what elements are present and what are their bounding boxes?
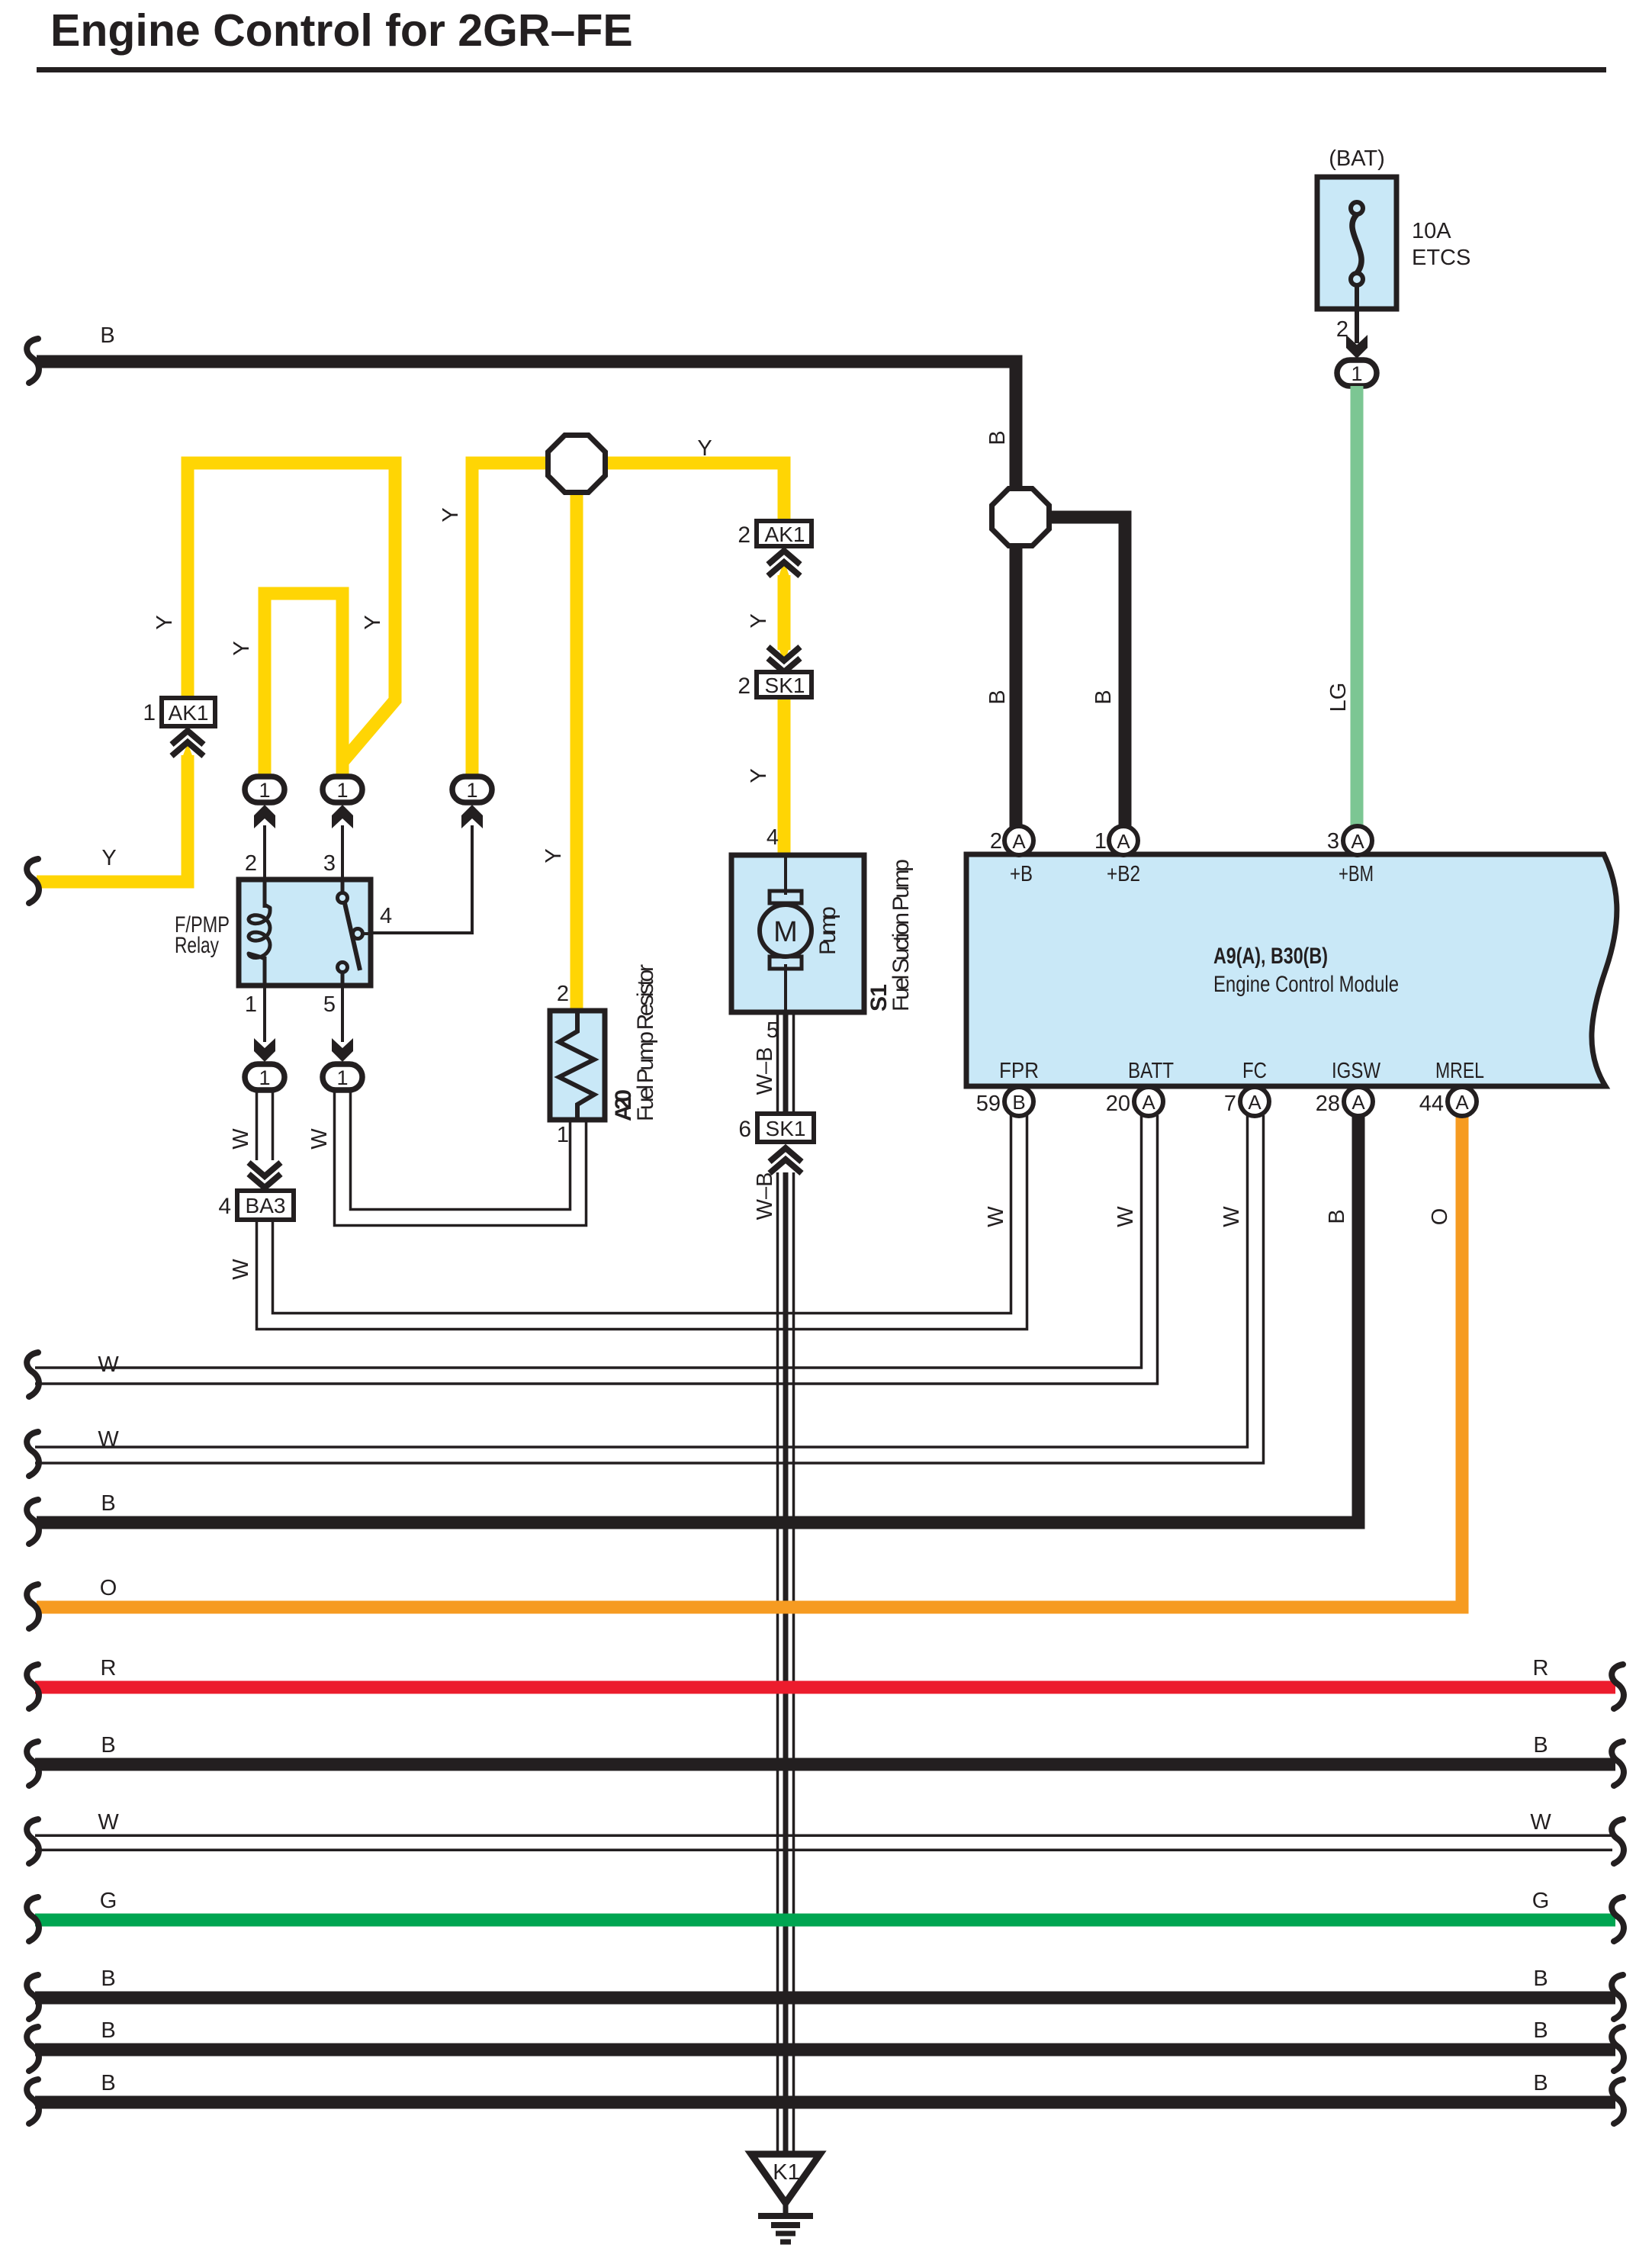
wire W relay pin1 oval to connector BA3: [256, 1090, 259, 1160]
svg-text:B: B: [101, 1967, 115, 1991]
svg-text:A: A: [1142, 1091, 1155, 1114]
connector 4 BA3: [237, 1191, 294, 1220]
svg-text:4: 4: [767, 825, 779, 850]
svg-text:AK1: AK1: [169, 701, 209, 725]
RELAY: [175, 777, 492, 1090]
wire W connector BA3 down right up to ECM pin 59 FPR: [257, 1115, 1027, 1330]
wire Y from relay pin4 oval up to splice and connector AK1: [472, 463, 784, 778]
pin circle 28 A: [1344, 1087, 1373, 1116]
svg-text:44: 44: [1419, 1092, 1444, 1116]
svg-text:2: 2: [738, 523, 750, 548]
fuse ETCS 10A box: [1317, 177, 1396, 309]
wire W bus from ECM pin 7 FC to left edge: [35, 1115, 1248, 1447]
svg-text:+B2: +B2: [1107, 862, 1140, 886]
wire Y from left edge to connector AK1: [37, 755, 188, 882]
svg-text:A: A: [1455, 1091, 1469, 1114]
svg-text:Engine Control for 2GR–FE: Engine Control for 2GR–FE: [50, 5, 633, 56]
svg-text:1: 1: [245, 992, 257, 1017]
svg-text:1: 1: [1351, 362, 1362, 385]
svg-text:A: A: [1351, 830, 1364, 853]
RESISTOR: [550, 964, 658, 1147]
wire LG from fuse to ECM pin 3 +BM: [1351, 386, 1364, 827]
svg-text:W: W: [98, 1352, 119, 1377]
wire continuation brace left R: [27, 1664, 39, 1709]
svg-text:A9(A), B30(B): A9(A), B30(B): [1213, 944, 1328, 969]
svg-text:R: R: [1533, 1656, 1549, 1680]
GROUND: [751, 2154, 820, 2242]
svg-text:SK1: SK1: [765, 674, 805, 697]
svg-text:4: 4: [218, 1194, 231, 1219]
svg-text:BATT: BATT: [1128, 1059, 1174, 1083]
wire continuation brace left B2313: [27, 1741, 39, 1786]
wire B bus full width 2687: [35, 2044, 1615, 2057]
wire B bus from ECM pin 28 IGSW to left edge: [37, 1115, 1358, 1523]
wire B branch from octagon to ECM pin 1 +B2: [1043, 517, 1125, 827]
svg-text:O: O: [100, 1576, 117, 1600]
svg-text:Y: Y: [747, 613, 771, 628]
svg-text:3: 3: [1327, 829, 1339, 854]
svg-text:2: 2: [557, 982, 569, 1006]
svg-text:+BM: +BM: [1339, 862, 1374, 886]
wire lead relay pin 5: [341, 986, 344, 1042]
wire W-B pump pin5 to connector SK1: [776, 1012, 779, 1115]
svg-text:3: 3: [323, 851, 336, 876]
arrow into connector: [1346, 335, 1368, 359]
relay switch: [341, 880, 345, 893]
wire continuation brace left W2415: [27, 1819, 39, 1864]
wire continuation brace right B2619: [1612, 1975, 1624, 2019]
svg-text:M: M: [773, 916, 798, 948]
svg-text:B: B: [1533, 1733, 1548, 1757]
svg-text:W: W: [307, 1128, 332, 1150]
resistor element zigzag: [559, 1011, 594, 1120]
title underline: [37, 67, 1606, 72]
svg-text:7: 7: [1224, 1092, 1236, 1116]
svg-text:Y: Y: [439, 507, 463, 522]
fuel suction pump S1 box: [731, 855, 864, 1012]
wire Y splice to fuel pump resistor pin 2: [570, 488, 583, 1011]
wire W bus full width 2415: [35, 1835, 1612, 1838]
wire B bus full width 2313: [35, 1758, 1615, 1771]
ground symbol bars: [758, 2213, 813, 2219]
arrow up into oval pin3: [332, 805, 353, 828]
fuse element symbol: [1352, 214, 1361, 273]
svg-text:ETCS: ETCS: [1412, 246, 1470, 270]
wire W relay pin5 oval down right up to resistor pin 1: [335, 1090, 587, 1226]
wire B bus full width 2756: [35, 2096, 1615, 2109]
connector chevron up below 2 AK1: [768, 551, 800, 576]
svg-text:6: 6: [738, 1117, 751, 1142]
wire Y peak tip into chevron below 2 AK1: [778, 561, 791, 580]
relay coil: [263, 880, 267, 908]
svg-text:B: B: [101, 2071, 115, 2095]
svg-text:Y: Y: [361, 615, 385, 629]
svg-text:Fuel Pump Resistor: Fuel Pump Resistor: [633, 964, 658, 1121]
wire W-B from connector SK1 down to ground K1: [776, 1172, 779, 2154]
title: Engine Control for 2GR-FE: [37, 5, 1606, 72]
svg-text:B: B: [985, 690, 1010, 704]
svg-text:B: B: [985, 430, 1010, 445]
wire continuation brace left Y: [27, 859, 39, 903]
svg-text:4: 4: [380, 904, 392, 928]
wire R bus full width: [35, 1681, 1615, 1694]
arrow down into oval pin5: [332, 1038, 353, 1062]
arrow up into oval pin4: [461, 805, 483, 828]
arrow down into oval pin1: [254, 1038, 275, 1062]
connector chevron up below 6 SK1: [770, 1148, 802, 1173]
connector 2 SK1: [757, 672, 812, 697]
BUSES: [27, 1115, 1624, 2124]
svg-text:W: W: [98, 1427, 119, 1452]
ground point K1 triangle: [751, 2154, 820, 2203]
wire Y connector AK1 to SK1: [778, 575, 791, 650]
svg-text:W: W: [1114, 1206, 1138, 1227]
svg-text:2: 2: [990, 829, 1002, 854]
arrow up into oval pin2: [254, 805, 275, 828]
wire continuation brace left B474: [27, 339, 39, 383]
wire continuation brace right W2415: [1612, 1819, 1624, 1864]
ECM: [966, 826, 1617, 1227]
wire lead relay pin 4: [371, 825, 472, 933]
wire Y from AK1 up over to relay pin3 branch: [188, 463, 395, 778]
svg-text:R: R: [101, 1656, 117, 1680]
pin circle 59 B: [1004, 1087, 1033, 1116]
svg-text:1: 1: [336, 779, 348, 802]
svg-text:AK1: AK1: [765, 523, 805, 546]
motor M circle: [760, 905, 812, 957]
svg-text:B: B: [1325, 1209, 1349, 1224]
svg-text:Y: Y: [542, 848, 566, 863]
wire continuation brace right B2313: [1612, 1741, 1624, 1786]
wire B from left edge to ECM pin 2 +B: [37, 362, 1016, 493]
svg-text:59: 59: [976, 1092, 1001, 1116]
wire continuation brace left W: [27, 1352, 39, 1397]
svg-text:B: B: [101, 1491, 115, 1516]
splice octagon B: [992, 489, 1049, 546]
wire G bus full width 2517: [35, 1914, 1615, 1927]
svg-text:A: A: [1117, 830, 1130, 853]
connector oval 1: [1337, 360, 1377, 386]
connector oval 1 relay pin1 bottom: [245, 1064, 284, 1090]
wire continuation brace right B2687: [1612, 2027, 1624, 2071]
connector 6 SK1: [757, 1114, 814, 1142]
svg-text:1: 1: [143, 700, 156, 725]
svg-text:Y: Y: [230, 641, 254, 655]
svg-text:1: 1: [1094, 829, 1107, 854]
wire continuation brace left B1996: [27, 1500, 39, 1544]
wire continuation brace right R: [1612, 1664, 1624, 1709]
svg-text:A: A: [1012, 830, 1026, 853]
wire continuation brace left B2687: [27, 2027, 39, 2071]
connector oval 1 relay pin3 top: [323, 777, 362, 802]
svg-text:B: B: [101, 1733, 115, 1757]
wire continuation brace left W2: [27, 1432, 39, 1476]
pin circle 7 A: [1240, 1087, 1269, 1116]
svg-text:B: B: [1091, 690, 1116, 704]
svg-text:BA3: BA3: [246, 1194, 286, 1217]
pin circle 2 A: [1004, 826, 1033, 855]
svg-text:1: 1: [259, 779, 270, 802]
wire Y peak tip into chevron below 1 AK1: [182, 743, 194, 761]
svg-text:B: B: [1533, 2018, 1548, 2043]
svg-text:Y: Y: [101, 846, 116, 870]
svg-text:1: 1: [557, 1123, 569, 1147]
motor lead bottom: [784, 964, 787, 1012]
svg-text:W: W: [98, 1810, 119, 1835]
wire B octagon splice to ECM pin 2: [1010, 542, 1023, 827]
motor lead top: [784, 855, 787, 895]
svg-text:O: O: [1428, 1208, 1452, 1226]
svg-text:1: 1: [466, 779, 477, 802]
pin circle 1 A: [1109, 826, 1138, 855]
wire continuation brace left G: [27, 1897, 39, 1941]
connector oval 1 relay pin4: [452, 777, 492, 802]
wire B bus full width 2619: [35, 1992, 1615, 2005]
motor brush top: [770, 891, 802, 903]
svg-text:Y: Y: [747, 768, 771, 783]
svg-text:Engine Control Module: Engine Control Module: [1213, 972, 1399, 997]
wire continuation brace left O: [27, 1584, 39, 1629]
wire continuation brace left B2619: [27, 1975, 39, 2019]
svg-text:W–B: W–B: [753, 1047, 777, 1095]
svg-text:Pump: Pump: [815, 906, 840, 955]
svg-text:2: 2: [245, 851, 257, 876]
connector chevron up below 1 AK1: [172, 731, 204, 756]
svg-text:B: B: [1533, 1967, 1548, 1991]
svg-text:G: G: [1532, 1889, 1550, 1913]
connector chevron down above 2 SK1: [768, 647, 800, 672]
svg-text:1: 1: [336, 1066, 348, 1089]
wire W bus from ECM pin 20 BATT to left edge: [35, 1115, 1142, 1368]
wire lead relay pin 3: [341, 825, 344, 881]
splice octagon Y: [548, 436, 606, 493]
svg-text:Fuel Suction Pump: Fuel Suction Pump: [889, 859, 914, 1011]
wire O bus from ECM pin 44 MREL to left edge: [37, 1115, 1462, 1607]
WHITEWIRES: [218, 1090, 1027, 1330]
wire continuation brace right B2756: [1612, 2079, 1624, 2124]
svg-text:10A: 10A: [1412, 219, 1451, 243]
svg-text:MREL: MREL: [1435, 1059, 1484, 1083]
svg-text:W: W: [229, 1259, 253, 1280]
wire continuation brace left B2756: [27, 2079, 39, 2124]
motor brush bottom: [770, 957, 802, 969]
svg-text:(BAT): (BAT): [1329, 146, 1385, 171]
svg-text:W: W: [1530, 1810, 1551, 1835]
svg-text:B: B: [1012, 1091, 1025, 1114]
svg-text:W–B: W–B: [753, 1172, 777, 1220]
FUSE: [1317, 146, 1470, 827]
wire Y peak tip into chevron above 2 SK1: [778, 645, 791, 663]
svg-text:Relay: Relay: [175, 933, 219, 958]
KWIRE: [753, 1172, 794, 2154]
svg-text:B: B: [1533, 2071, 1548, 2095]
PUMP: [731, 825, 914, 1173]
svg-text:B: B: [101, 2018, 115, 2043]
relay F/PMP box: [239, 880, 371, 986]
pin circle 3 A: [1343, 826, 1372, 855]
svg-text:K1: K1: [773, 2160, 799, 2185]
wire Y connector SK1 to pump pin 4: [778, 695, 791, 855]
svg-text:FPR: FPR: [999, 1059, 1039, 1083]
svg-text:LG: LG: [1326, 683, 1351, 712]
wire fuse pin 2 lead: [1355, 285, 1359, 343]
TOPBLACK: [27, 323, 1125, 827]
connector oval 1 relay pin2 top: [245, 777, 284, 802]
svg-text:5: 5: [323, 992, 336, 1017]
connector 2 AK1: [757, 521, 812, 546]
svg-text:Y: Y: [697, 436, 712, 461]
svg-text:20: 20: [1106, 1092, 1130, 1116]
svg-text:A: A: [1248, 1091, 1261, 1114]
svg-text:28: 28: [1316, 1092, 1340, 1116]
svg-text:1: 1: [259, 1066, 270, 1089]
connector 1 AK1: [162, 698, 215, 726]
connector chevron down above 4 BA3: [249, 1163, 281, 1188]
svg-text:B: B: [100, 323, 114, 348]
wire Y loop relay pin2 to pin3: [265, 593, 342, 778]
YELLOW: [27, 436, 812, 1011]
wire lead relay pin 2: [263, 825, 266, 881]
wire lead relay pin 1: [263, 986, 266, 1042]
wire continuation brace right G: [1612, 1897, 1624, 1941]
svg-text:A: A: [1351, 1091, 1365, 1114]
engine control module A9/B30 box: [966, 854, 1617, 1086]
svg-text:G: G: [100, 1889, 117, 1913]
svg-text:W: W: [984, 1206, 1008, 1227]
svg-text:W: W: [229, 1128, 253, 1150]
pin circle 44 A: [1448, 1087, 1477, 1116]
connector oval 1 relay pin5 bottom: [323, 1064, 362, 1090]
svg-text:Y: Y: [153, 615, 177, 629]
svg-text:FC: FC: [1242, 1059, 1267, 1083]
pin circle 20 A: [1134, 1087, 1163, 1116]
ground stub: [783, 2203, 789, 2215]
fuel pump resistor A20 box: [550, 1011, 605, 1120]
svg-text:2: 2: [738, 674, 750, 699]
svg-text:IGSW: IGSW: [1332, 1059, 1381, 1083]
svg-text:W: W: [1220, 1206, 1244, 1227]
svg-text:SK1: SK1: [766, 1117, 806, 1140]
svg-text:+B: +B: [1010, 862, 1033, 886]
